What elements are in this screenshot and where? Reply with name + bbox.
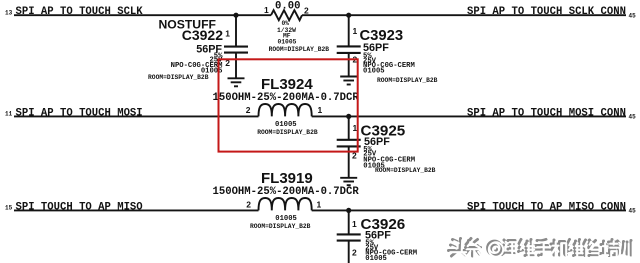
svg-text:45: 45	[629, 114, 637, 121]
svg-text:FL3924: FL3924	[261, 76, 313, 93]
@ glyph of watermark	[487, 241, 501, 255]
wire SPI_TOUCH_TO_AP_MISO (bottom net, y=210.4)	[14, 209, 626, 211]
svg-text:01005: 01005	[275, 121, 297, 129]
svg-text:11: 11	[5, 111, 13, 118]
wire down to C3926	[348, 210, 350, 234]
svg-text:2: 2	[352, 248, 357, 258]
wire down to C3925	[348, 116, 350, 139]
inductor FL3924 (series on MOSI)	[213, 76, 360, 136]
red highlight box around FL3924	[219, 59, 358, 151]
svg-text:C3922: C3922	[182, 27, 223, 43]
头	[449, 239, 466, 257]
net label SPI_AP_TO_TOUCH_MOSI left, pin 11	[5, 107, 143, 119]
svg-text:1: 1	[317, 200, 322, 210]
svg-text:13: 13	[5, 10, 13, 17]
svg-text:ROOM=DISPLAY_B2B: ROOM=DISPLAY_B2B	[148, 74, 209, 81]
迅	[502, 240, 515, 255]
svg-text:45: 45	[629, 13, 637, 20]
维	[567, 240, 582, 256]
svg-text:1: 1	[353, 26, 358, 36]
ground (C3925)	[340, 178, 357, 185]
capacitor C3922 (NOSTUFF)	[148, 18, 248, 81]
svg-text:FL3919: FL3919	[261, 170, 313, 187]
svg-text:45: 45	[629, 208, 637, 215]
svg-text:1: 1	[352, 219, 357, 229]
维	[519, 240, 534, 256]
svg-text:01005: 01005	[363, 67, 385, 75]
svg-text:01005: 01005	[365, 255, 387, 263]
svg-text:2: 2	[304, 6, 309, 16]
svg-text:150OHM-25%-200MA-0.7DCR: 150OHM-25%-200MA-0.7DCR	[213, 186, 360, 198]
wire SPI_AP_TO_TOUCH_SCLK (top net, y=15.2)	[14, 14, 626, 16]
capacitor C3923	[337, 26, 438, 84]
node junction SCLK / C3922	[233, 13, 238, 18]
训	[617, 241, 631, 256]
net label SPI_AP_TO_TOUCH_SCLK_CONN right, pin 45	[467, 6, 636, 19]
svg-text:ROOM=DISPLAY_B2B: ROOM=DISPLAY_B2B	[377, 77, 438, 84]
svg-text:SPI_AP_TO_TOUCH_MOSI_CONN: SPI_AP_TO_TOUCH_MOSI_CONN	[467, 107, 626, 119]
svg-text:SPI_TOUCH_TO_AP_MISO: SPI_TOUCH_TO_AP_MISO	[16, 201, 143, 213]
capacitor C3925	[337, 123, 436, 178]
svg-text:0.00: 0.00	[275, 1, 300, 13]
修	[583, 240, 597, 256]
svg-text:1: 1	[264, 5, 269, 15]
条	[466, 239, 481, 257]
手	[534, 240, 549, 256]
svg-text:1: 1	[318, 105, 323, 115]
svg-text:ROOM=DISPLAY_B2B: ROOM=DISPLAY_B2B	[250, 223, 311, 230]
capacitor C3926	[337, 216, 417, 263]
node junction MISO / C3926	[346, 208, 351, 213]
svg-text:15: 15	[5, 205, 13, 212]
svg-text:SPI_AP_TO_TOUCH_SCLK_CONN: SPI_AP_TO_TOUCH_SCLK_CONN	[467, 6, 626, 18]
svg-text:1: 1	[225, 29, 230, 39]
svg-text:SPI_AP_TO_TOUCH_MOSI: SPI_AP_TO_TOUCH_MOSI	[16, 107, 143, 119]
svg-text:SPI_AP_TO_TOUCH_SCLK: SPI_AP_TO_TOUCH_SCLK	[16, 6, 144, 18]
ground (C3922)	[228, 78, 245, 86]
ground (C3923)	[340, 77, 357, 85]
net label SPI_AP_TO_TOUCH_MOSI_CONN right, pin 45	[467, 107, 636, 120]
培	[601, 240, 616, 256]
net label SPI_AP_TO_TOUCH_SCLK left, pin 13	[5, 6, 143, 18]
net label SPI_TOUCH_TO_AP_MISO left, pin 15	[5, 201, 143, 213]
net label SPI_TOUCH_TO_AP_MISO_CONN right, pin 45	[467, 201, 636, 214]
svg-text:ROOM=DISPLAY_B2B: ROOM=DISPLAY_B2B	[375, 167, 436, 174]
svg-text:01005: 01005	[278, 39, 297, 46]
svg-text:01005: 01005	[275, 215, 297, 223]
机	[551, 240, 567, 255]
svg-text:ROOM=DISPLAY_B2B: ROOM=DISPLAY_B2B	[257, 129, 318, 136]
svg-text:SPI_TOUCH_TO_AP_MISO_CONN: SPI_TOUCH_TO_AP_MISO_CONN	[467, 201, 626, 213]
wire down to C3923	[348, 15, 350, 46]
resistor 0.00 (series on SCLK)	[264, 1, 329, 53]
watermark 头条 @迅维手机维修培训	[449, 239, 633, 258]
inductor FL3919 (series on MISO)	[213, 170, 360, 230]
node junction MOSI / C3925	[346, 114, 351, 119]
wire SPI_AP_TO_TOUCH_MOSI (middle net, y=116.4)	[14, 115, 626, 117]
node junction SCLK / C3923	[346, 13, 351, 18]
svg-text:2: 2	[246, 105, 251, 115]
svg-text:2: 2	[246, 200, 251, 210]
svg-text:150OHM-25%-200MA-0.7DCR: 150OHM-25%-200MA-0.7DCR	[213, 92, 360, 104]
wire down to C3922	[235, 15, 237, 46]
svg-text:ROOM=DISPLAY_B2B: ROOM=DISPLAY_B2B	[269, 46, 330, 53]
